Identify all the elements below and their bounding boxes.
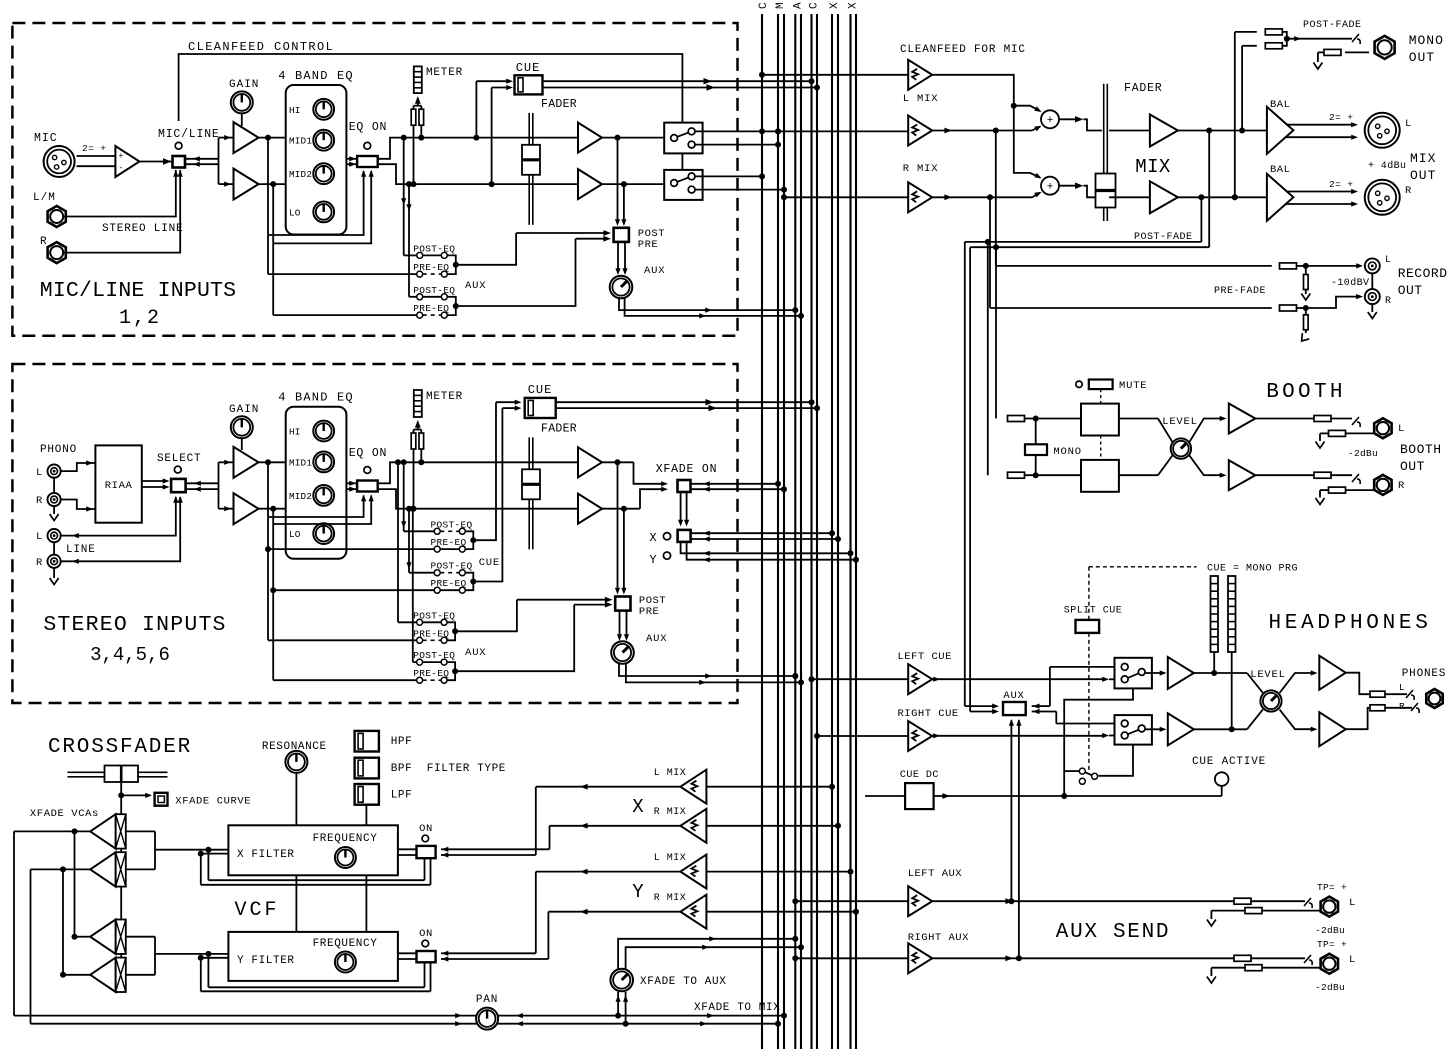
- wire vca3 out: [75, 936, 91, 938]
- wire xfade out R to bus: [691, 488, 785, 490]
- switch HPF: [355, 731, 379, 752]
- switch POST/PRE ch1: [614, 228, 629, 242]
- wire pre-fade L: [995, 131, 997, 266]
- wire aux L ring gnd: [1211, 910, 1245, 912]
- resistor aux R: [1234, 955, 1251, 961]
- jack contact aux R: [1304, 955, 1311, 963]
- indicator circle ON y: [422, 940, 429, 947]
- wire routing L out2: [695, 144, 778, 146]
- svg-text:L MIX: L MIX: [903, 93, 939, 105]
- switch contact POST-EQ row ch2 auxR: [413, 661, 417, 663]
- wire select out ch2 cueR: [473, 408, 502, 581]
- wire aux L ring: [1262, 910, 1320, 912]
- svg-text:L/M: L/M: [33, 192, 56, 204]
- tap cue L ch1: [473, 135, 479, 141]
- svg-text:R: R: [36, 557, 43, 569]
- wire line L to select: [61, 497, 176, 536]
- resistor booth R ring: [1329, 487, 1346, 493]
- resistor meter L ch2: [420, 430, 422, 434]
- svg-text:L: L: [1398, 423, 1405, 435]
- amplifier balanced R: [1267, 174, 1294, 221]
- jack contact booth R: [1352, 474, 1359, 482]
- wire cue select L to cue sw: [496, 401, 516, 403]
- wire xfade control rail: [120, 795, 122, 975]
- wire vca1 out rail: [14, 830, 90, 832]
- svg-text:L: L: [36, 531, 43, 543]
- meter bargraph ch1: [414, 66, 422, 93]
- wire y L out: [536, 871, 681, 873]
- svg-text:R MIX: R MIX: [903, 163, 939, 175]
- wire right aux out: [932, 957, 1234, 959]
- svg-text:AUX: AUX: [646, 633, 667, 645]
- svg-text:FADER: FADER: [541, 98, 577, 111]
- resistor hp R: [1370, 705, 1385, 711]
- knob EQ MID1 ch2: [313, 452, 334, 473]
- wire EQ ON to wire L ch2: [378, 462, 578, 483]
- wire routing L out1: [695, 130, 908, 132]
- svg-text:CUE: CUE: [528, 383, 553, 397]
- wire filtertype down: [365, 805, 367, 826]
- wire xfade to aux R: [626, 947, 801, 969]
- wire booth R in: [1025, 474, 1082, 476]
- amplifier booth L: [1229, 404, 1256, 434]
- svg-text:CUE ACTIVE: CUE ACTIVE: [1192, 756, 1266, 768]
- vca X L MIX: [680, 770, 706, 804]
- resistor meter L ch1: [420, 106, 422, 110]
- svg-text:FREQUENCY: FREQUENCY: [313, 938, 378, 950]
- resistor meter R ch2: [413, 430, 415, 434]
- resistor booth R out: [1314, 472, 1331, 478]
- meter bargraph ch2: [414, 390, 422, 417]
- svg-text:2= +: 2= +: [1329, 179, 1353, 190]
- ground mono: [1313, 63, 1322, 70]
- wire booth L tip: [1331, 418, 1352, 420]
- indicator circle mute: [1076, 381, 1082, 387]
- wire xfade out L to bus: [691, 483, 779, 485]
- switch EQ ON ch1: [357, 156, 378, 167]
- svg-text:AUX: AUX: [465, 280, 486, 292]
- indicator circle select: [174, 466, 181, 473]
- knob LEVEL booth: [1171, 438, 1191, 458]
- wire mono tap R: [1232, 194, 1238, 200]
- svg-text:LPF: LPF: [391, 790, 413, 802]
- resistor booth L ring: [1329, 430, 1346, 436]
- wire mono ring: [1345, 51, 1369, 53]
- wire hp L tip: [1385, 693, 1407, 695]
- connector RCA RECORD L: [1365, 258, 1380, 273]
- resistor hp L: [1370, 691, 1385, 697]
- wire booth L out: [1255, 418, 1314, 420]
- wire mix L to bal: [1178, 130, 1267, 132]
- svg-text:ON: ON: [419, 823, 433, 835]
- wire y mix returns: [441, 952, 448, 954]
- wire bal R outs: [1287, 191, 1352, 193]
- svg-text:ON: ON: [419, 928, 433, 940]
- wire dashed split cue: [1088, 633, 1090, 771]
- resistor mono L: [1265, 43, 1282, 49]
- bus rail X-R: [837, 14, 839, 1049]
- EQ box ch2: [286, 407, 347, 559]
- wire hp R out: [1346, 708, 1369, 729]
- svg-text:R: R: [1385, 296, 1392, 307]
- wire aux L to bus ch1: [619, 297, 795, 310]
- bus label C: [758, 2, 770, 9]
- wire R mix in: [781, 194, 787, 200]
- tap post-fade L ch2: [615, 459, 621, 465]
- wire xfade to mix L: [14, 1015, 784, 1017]
- svg-text:+: +: [119, 152, 124, 161]
- wire aux select L to postpre: [517, 599, 606, 601]
- wire line jack link: [53, 542, 55, 555]
- svg-text:POST-FADE: POST-FADE: [1134, 232, 1193, 243]
- wire pgm to aux sw L: [965, 705, 993, 707]
- wire EQ bypass R ch1: [273, 171, 371, 243]
- vca LEFT CUE: [908, 664, 932, 694]
- wire gain L out: [259, 137, 286, 139]
- svg-text:EQ ON: EQ ON: [349, 121, 388, 134]
- wire y R out: [548, 911, 680, 913]
- wire x L out: [536, 786, 681, 788]
- summer R: [1041, 177, 1059, 195]
- wire EQ bypass L ch2: [268, 496, 364, 518]
- wire right cue out: [932, 735, 1103, 737]
- wire cleanfeed bus to vca: [759, 72, 765, 78]
- svg-text:1,2: 1,2: [119, 307, 161, 330]
- wire pgm feed R: [964, 242, 966, 706]
- vca L MIX: [908, 116, 932, 146]
- svg-text:A: A: [792, 2, 804, 9]
- svg-text:SELECT: SELECT: [157, 453, 201, 465]
- svg-text:X FILTER: X FILTER: [237, 849, 295, 861]
- wire booth R out: [1255, 474, 1314, 476]
- svg-text:HI: HI: [289, 427, 301, 438]
- switch SELECT ch2: [171, 479, 186, 492]
- wire switch to gain amps R: [185, 163, 219, 165]
- wire select to postpre sw ch1 L: [516, 232, 605, 234]
- wire post-fade R down: [1200, 197, 1202, 242]
- wire left aux in: [792, 898, 798, 904]
- RIAA box: [95, 445, 141, 522]
- wire L to xfade sw: [634, 462, 663, 484]
- tap post-eq auxR ch2: [410, 506, 416, 512]
- wire amp L out ch1: [602, 137, 664, 139]
- wire preamp to mic/line switch: [139, 161, 171, 163]
- wire EQ ON to wire R ch1: [378, 164, 578, 184]
- svg-text:HEADPHONES: HEADPHONES: [1268, 612, 1431, 635]
- wire summer R out: [1059, 185, 1078, 187]
- amplifier line L ch2: [578, 447, 602, 477]
- wire booth X cross: [1119, 418, 1158, 420]
- junction ch1 auxL: [453, 262, 459, 268]
- svg-text:FREQUENCY: FREQUENCY: [313, 833, 378, 845]
- wire EQ bypass L ch1: [268, 171, 364, 235]
- vca crossfader 1: [116, 814, 126, 848]
- resistor record R: [1280, 305, 1297, 311]
- wire EQ out to switch ch1: [346, 158, 356, 160]
- vca crossfader 4: [116, 958, 126, 992]
- amplifier line R ch2: [578, 494, 602, 524]
- svg-text:M: M: [775, 2, 787, 9]
- crossfader slider: [68, 771, 168, 773]
- junction ch2 auxR: [452, 668, 458, 674]
- wire x out L to bus: [691, 532, 832, 534]
- wire aux sw out R: [1032, 711, 1043, 713]
- bus rail MIX-L: [777, 14, 779, 1049]
- knob EQ LO ch2: [313, 523, 334, 544]
- svg-text:C: C: [809, 2, 821, 9]
- svg-text:BOOTH: BOOTH: [1266, 381, 1346, 404]
- wire yfilter to on: [398, 952, 417, 954]
- wire booth R tip: [1331, 474, 1352, 476]
- connector XLR MIX OUT L: [1365, 113, 1400, 148]
- switch X ch2: [678, 530, 691, 542]
- wire cleanfeed to R summer: [1014, 106, 1040, 178]
- knob EQ HI ch2: [313, 421, 334, 442]
- svg-text:TP= +: TP= +: [1317, 882, 1347, 893]
- switch EQ ON ch2: [357, 481, 378, 492]
- wire EQ bypass R ch2: [273, 496, 371, 525]
- bus label X: [829, 2, 841, 9]
- wire R to xfade sw: [640, 489, 662, 509]
- resistor booth L out: [1314, 416, 1331, 422]
- wire xfilter underpass: [207, 850, 209, 881]
- amplifier gain L ch2: [234, 447, 259, 478]
- dashed border MIC/LINE INPUTS box: [12, 23, 737, 336]
- wire aux monitor taps: [1010, 720, 1012, 901]
- knob GAIN ch2: [231, 416, 253, 438]
- svg-text:PRE-FADE: PRE-FADE: [1214, 286, 1266, 297]
- tap post-fade R ch1: [621, 181, 627, 187]
- svg-text:FADER: FADER: [1124, 82, 1163, 95]
- wire cleanfeed vca out: [932, 75, 1014, 106]
- wire EQ ON to wire R ch2: [378, 489, 578, 509]
- wire record rca link: [1371, 274, 1373, 290]
- tap post-eq cueR ch2: [406, 506, 412, 512]
- bus rail AUX-L: [794, 14, 796, 1049]
- connector RCA line L: [48, 529, 61, 542]
- bus label C: [809, 2, 821, 9]
- vca LEFT AUX: [908, 886, 932, 916]
- knob FREQUENCY Y: [335, 952, 356, 973]
- svg-text:CLEANFEED FOR MIC: CLEANFEED FOR MIC: [900, 44, 1026, 56]
- resistor booth L in: [1008, 416, 1025, 422]
- wire cue R to bus ch2: [556, 407, 817, 409]
- svg-text:AUX: AUX: [1003, 690, 1024, 702]
- ground record L: [1301, 294, 1310, 301]
- indicator circle X: [663, 533, 670, 540]
- wire cue L to bus ch2: [556, 401, 812, 403]
- svg-text:GAIN: GAIN: [229, 79, 259, 91]
- indicator circle EQ ON ch2: [364, 467, 371, 474]
- svg-text:PRE: PRE: [638, 239, 658, 251]
- vca X R MIX: [680, 809, 706, 843]
- ground below line R: [53, 568, 55, 578]
- svg-text:VCF: VCF: [234, 899, 279, 922]
- svg-text:CROSSFADER: CROSSFADER: [48, 736, 192, 759]
- wire y L in: [707, 871, 851, 873]
- svg-text:AUX: AUX: [644, 265, 665, 277]
- amplifier hp out R: [1319, 712, 1345, 746]
- svg-text:CUE = MONO PRG: CUE = MONO PRG: [1207, 564, 1298, 575]
- fader ch2: [528, 437, 530, 549]
- tap post-fade L ch1: [615, 135, 621, 141]
- wire meter L drop: [1213, 652, 1215, 673]
- svg-text:MONO: MONO: [1409, 33, 1444, 48]
- op-amp mic preamp U1: [115, 146, 139, 177]
- tap post-eq R ch1: [406, 181, 412, 187]
- resistor aux L ring: [1245, 908, 1262, 914]
- vca R MIX: [908, 182, 932, 212]
- svg-text:BAL: BAL: [1270, 99, 1290, 111]
- wire select to gain amps R ch2: [186, 488, 219, 490]
- switch selector hp L: [1115, 658, 1152, 689]
- wire mix L rail: [13, 831, 15, 1015]
- knob PAN: [476, 1008, 498, 1030]
- wire cue select R to cue sw: [502, 407, 516, 409]
- svg-text:FADER: FADER: [541, 423, 577, 436]
- wire xfade to aux taps: [617, 992, 619, 1016]
- wire booth X cross out: [1189, 419, 1222, 443]
- wire L mix line: [775, 128, 781, 134]
- wire mono merge: [1282, 32, 1287, 39]
- bus rail Y-L: [849, 14, 851, 1049]
- wire R mix line: [932, 196, 990, 198]
- summer L: [1041, 110, 1059, 128]
- wire hp L to level: [1194, 672, 1247, 674]
- connector RCA phono L: [48, 465, 61, 478]
- switch routing R ch1: [664, 170, 702, 200]
- connector jack BOOTH R: [1374, 475, 1391, 495]
- wire booth L ring: [1345, 432, 1374, 434]
- knob EQ LO ch1: [313, 202, 334, 223]
- wire vca12 to xfilter: [126, 830, 155, 832]
- amplifier mix L: [1150, 115, 1178, 147]
- fader ch1: [528, 113, 530, 225]
- wire aux sw out L: [1032, 705, 1043, 707]
- svg-text:L: L: [36, 467, 43, 479]
- svg-text:CUE: CUE: [479, 557, 500, 569]
- amplifier gain L ch1: [234, 122, 259, 153]
- knob AUX ch1: [610, 276, 633, 299]
- wire aux R ring: [1262, 967, 1320, 969]
- connector jack MONO OUT: [1375, 36, 1395, 59]
- resistor meter R ch1: [413, 106, 415, 110]
- indicator circle Y: [663, 552, 670, 559]
- svg-text:EQ ON: EQ ON: [349, 447, 388, 460]
- wire select out ch2 auxL: [455, 600, 517, 632]
- wire x mix returns: [441, 848, 448, 850]
- junction ch2 auxL: [452, 628, 458, 634]
- switch AUX hp: [1003, 702, 1026, 715]
- switch ON y: [417, 951, 436, 962]
- resistor aux R ring: [1245, 965, 1262, 971]
- wire select out ch1 auxL: [456, 233, 516, 265]
- svg-text:PRE: PRE: [639, 606, 659, 618]
- svg-text:XFADE CURVE: XFADE CURVE: [175, 796, 251, 808]
- knob XFADE TO AUX: [610, 969, 633, 992]
- wire hp R to level: [1194, 728, 1247, 730]
- tap pre-eq cueR ch2: [270, 506, 276, 512]
- svg-text:FILTER TYPE: FILTER TYPE: [427, 763, 506, 775]
- svg-text:HPF: HPF: [391, 736, 413, 748]
- svg-text:-2dBu: -2dBu: [1315, 982, 1345, 993]
- wire meter feed tee ch1: [414, 105, 422, 107]
- junction ch1 auxR: [453, 303, 459, 309]
- switch XFADE CURVE: [155, 793, 168, 806]
- switch contact PRE-EQ row ch2 auxR: [273, 679, 416, 681]
- wire cleanfeed to L summer: [1014, 106, 1040, 111]
- EQ box ch1: [286, 85, 347, 235]
- knob EQ MID1 ch1: [313, 130, 334, 151]
- svg-text:+ 4dBu: + 4dBu: [1368, 160, 1406, 172]
- wire select out ch2 cueL: [473, 402, 496, 540]
- connector jack AUX L: [1321, 897, 1338, 917]
- wire post-fade L down: [1208, 131, 1210, 248]
- wire amp L out ch2: [602, 461, 634, 463]
- booth matrix box R: [1081, 460, 1119, 492]
- svg-text:RIGHT AUX: RIGHT AUX: [908, 932, 969, 944]
- svg-text:AUX: AUX: [465, 647, 486, 659]
- wire EQ ON to wire L ch1: [378, 138, 578, 159]
- svg-text:L MIX: L MIX: [654, 853, 687, 864]
- svg-text:LEVEL: LEVEL: [1162, 416, 1198, 428]
- ground below phono R: [53, 507, 55, 515]
- wire x L in: [707, 786, 832, 788]
- svg-text:POST-FADE: POST-FADE: [1303, 20, 1362, 31]
- svg-text:L: L: [1349, 954, 1356, 966]
- svg-text:STEREO INPUTS: STEREO INPUTS: [43, 613, 226, 637]
- resistor record L: [1280, 263, 1297, 269]
- wire aux R to bus ch1: [625, 297, 801, 316]
- svg-text:PHONES: PHONES: [1402, 668, 1446, 680]
- wire RIAA out: [142, 480, 166, 482]
- svg-text:X: X: [848, 2, 860, 9]
- ground below record R: [1371, 305, 1373, 313]
- wire vca4 out: [63, 974, 90, 976]
- vca CLEANFEED FOR MIC: [908, 60, 932, 90]
- svg-text:Y: Y: [649, 553, 656, 567]
- wire amp R out ch1: [602, 183, 664, 185]
- bus rail X-L: [831, 14, 833, 1049]
- junction ch2 cueL: [470, 537, 476, 543]
- wire amp R out ch2: [602, 508, 640, 510]
- switch contact POST-EQ row ch2 cueL: [404, 530, 435, 532]
- knob GAIN ch1: [231, 91, 253, 113]
- wire mono ring gnd: [1318, 51, 1324, 53]
- svg-text:XFADE VCAs: XFADE VCAs: [30, 808, 99, 820]
- svg-text:+: +: [1047, 182, 1054, 194]
- wire bal L outs: [1287, 124, 1352, 126]
- wire right aux in: [792, 955, 798, 961]
- wire vca2 out rail: [31, 868, 91, 870]
- tap post-eq cueL ch2: [401, 459, 407, 465]
- bus label M: [775, 2, 787, 9]
- wire record L: [1297, 265, 1306, 267]
- wire x R out: [550, 825, 681, 827]
- wire line R to select: [61, 497, 181, 561]
- svg-text:BOOTH: BOOTH: [1400, 442, 1442, 457]
- svg-text:L: L: [1385, 255, 1392, 266]
- resistor record R shunt: [1305, 308, 1307, 314]
- wire cue R to bus: [543, 87, 818, 89]
- amplifier hp out L: [1319, 656, 1345, 690]
- wire select out ch2 auxR: [455, 605, 574, 672]
- svg-text:MIC/LINE: MIC/LINE: [158, 128, 220, 141]
- svg-text:MIX: MIX: [1410, 151, 1436, 166]
- switch LPF: [355, 784, 379, 805]
- amplifier booth R: [1229, 460, 1256, 490]
- wire aux select R to postpre: [574, 604, 606, 606]
